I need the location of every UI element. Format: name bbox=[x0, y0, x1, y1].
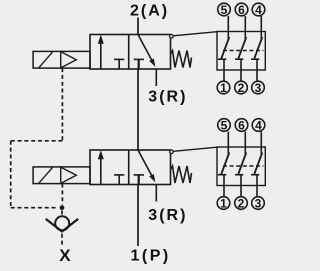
svg-text:4: 4 bbox=[255, 3, 262, 17]
svg-text:X: X bbox=[59, 246, 71, 265]
svg-text:2: 2 bbox=[238, 81, 245, 95]
svg-text:3(R): 3(R) bbox=[148, 207, 187, 224]
svg-text:3: 3 bbox=[255, 81, 262, 95]
svg-text:3: 3 bbox=[255, 197, 262, 211]
svg-text:1: 1 bbox=[220, 81, 227, 95]
svg-text:5: 5 bbox=[221, 119, 228, 133]
svg-text:5: 5 bbox=[221, 3, 228, 17]
svg-text:1(P): 1(P) bbox=[131, 247, 171, 264]
svg-text:6: 6 bbox=[238, 3, 245, 17]
svg-text:4: 4 bbox=[255, 119, 262, 133]
svg-text:2: 2 bbox=[238, 197, 245, 211]
svg-text:3(R): 3(R) bbox=[148, 89, 187, 106]
svg-text:1: 1 bbox=[220, 197, 227, 211]
svg-text:6: 6 bbox=[238, 119, 245, 133]
svg-text:2(A): 2(A) bbox=[130, 3, 169, 20]
